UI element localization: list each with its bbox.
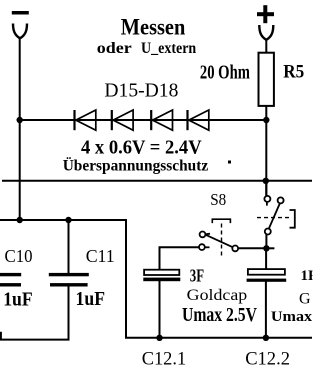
svg-text:C12.1: C12.1 [142, 349, 187, 370]
capacitor C11 top wire [68, 220, 70, 273]
junction plus bus [263, 178, 269, 184]
wire resistor to bus [265, 106, 267, 196]
svg-text:Überspannungsschutz: Überspannungsschutz [63, 157, 209, 174]
wire stub right of junction [266, 247, 274, 249]
switch S8a contact upper [200, 232, 206, 238]
switch S8a contact lower with stub [199, 244, 210, 250]
wire C12.1 bottom [159, 281, 161, 338]
wire S8b lower to junction [265, 235, 267, 249]
diode D17 [151, 110, 172, 130]
capacitor C10 plates [0, 273, 21, 287]
svg-text:S8: S8 [210, 190, 226, 209]
svg-text:Umax 2.5V: Umax 2.5V [182, 305, 257, 326]
wire S8a common to junction [238, 247, 266, 249]
svg-text:C11: C11 [86, 246, 115, 266]
switch S8b bracket [290, 210, 295, 228]
switch S8b lever [269, 204, 280, 229]
switch S8b throw contact [278, 197, 284, 203]
goldcap C12.2 plates [247, 269, 287, 282]
switch S8a bracket [212, 219, 230, 223]
wire minus vertical [19, 38, 21, 220]
wire diode row [20, 119, 267, 121]
switch S8b lower contact [265, 229, 271, 235]
resistor R5 [259, 53, 274, 106]
terminal jack minus [13, 24, 27, 39]
junction C12.2 bottom [263, 335, 269, 341]
svg-text:3F: 3F [190, 266, 204, 286]
wire C12.2 bottom [265, 282, 267, 339]
junction minus wire on bus [17, 217, 23, 223]
switch S8a common contact [232, 246, 238, 252]
terminal minus sign [12, 11, 29, 15]
svg-text:Umax 2.5V: Umax 2.5V [271, 309, 326, 325]
junction C11 top [65, 217, 71, 223]
junction diode row left [17, 117, 23, 123]
svg-text:U_extern: U_extern [141, 40, 197, 57]
terminal plus sign [257, 5, 274, 23]
svg-text:R5: R5 [283, 63, 304, 83]
wire C12.1 top [160, 247, 200, 269]
wire C12.2 top [265, 248, 267, 269]
switch S8b wire from bus [265, 181, 267, 196]
svg-text:1uF: 1uF [3, 289, 33, 311]
svg-text:D15-D18: D15-D18 [104, 80, 178, 101]
svg-text:Messen: Messen [121, 15, 186, 40]
terminal jack plus [259, 25, 273, 40]
wire plus to resistor [265, 40, 267, 54]
diode D15 [75, 110, 96, 130]
junction diode row right [263, 117, 269, 123]
stray dot [228, 161, 231, 164]
goldcap C12.1 plates [143, 270, 180, 282]
diode D18 [188, 110, 209, 130]
switch S8b common contact with stub [264, 196, 270, 206]
svg-text:1F: 1F [301, 268, 318, 284]
svg-text:oder: oder [97, 40, 132, 57]
junction C12.1 bottom [156, 335, 162, 341]
svg-text:1uF: 1uF [76, 288, 106, 310]
svg-text:C12.2: C12.2 [245, 349, 290, 370]
svg-text:C10: C10 [5, 246, 33, 266]
svg-text:20 Ohm: 20 Ohm [200, 62, 250, 84]
switch S8a lever [206, 234, 233, 247]
switch S8a dashed link [221, 224, 223, 259]
diode D16 [112, 110, 133, 130]
switch S8b dashed link [257, 217, 289, 219]
svg-text:4 x 0.6V = 2.4V: 4 x 0.6V = 2.4V [81, 137, 202, 159]
svg-text:G: G [299, 290, 311, 307]
wire C10 bottom corner [1, 286, 69, 339]
capacitor C11 plates [49, 273, 89, 287]
wire plus bus horizontal [2, 180, 312, 182]
junction switch common [263, 245, 269, 251]
svg-text:Goldcap: Goldcap [187, 287, 248, 304]
wire minus bus with corner to bottom [0, 220, 312, 338]
